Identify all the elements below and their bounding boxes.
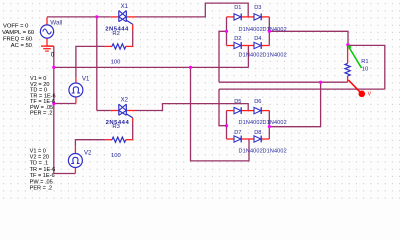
pin R2 right [126,45,134,47]
pin X2 left [111,110,119,112]
wire bridge1 right node to R1 top [269,31,348,45]
wire Wall+ to X1 (top rail y=16.9) [47,16,111,18]
svg-text:PER = .2: PER = .2 [30,111,53,117]
svg-text:D1: D1 [234,5,241,11]
svg-text:AC = 50: AC = 50 [11,43,32,49]
wire bridge1 right node vertical [268,17,270,46]
svg-text:X1: X1 [121,4,129,10]
junction at 53.8,103.5 [52,102,55,105]
pulse source V2 (VPULSE) [68,154,82,168]
label D1N4002 pair [239,120,287,126]
label D1N4002 pair [239,27,287,33]
pin Wall top [46,17,48,25]
svg-text:D1N4002: D1N4002 [263,120,287,126]
svg-text:TD = .1: TD = .1 [30,161,48,167]
wire drop to bridge2 left node [219,89,227,126]
junction at 269.3,126.6 [268,125,271,128]
svg-text:D1N4002: D1N4002 [263,27,287,33]
svg-text:D6: D6 [254,99,261,105]
pin V1 top [75,77,77,83]
junction at 226.5,125.7 [225,124,228,127]
diode D2 [234,42,241,48]
junction at 226.5,31.3 [225,30,228,33]
svg-text:D1N4002: D1N4002 [263,53,287,59]
svg-text:TF = 1E-6: TF = 1E-6 [30,173,55,179]
wire V1+ up to R2 left [76,46,105,77]
wire X1 output jog to bridge1 AC tap [135,3,248,17]
pulse source V1 (VPULSE) [69,83,83,97]
bridge row pins y=110.6 [227,110,270,112]
svg-text:D1N4002: D1N4002 [239,27,263,33]
svg-text:D1N4002: D1N4002 [239,120,263,126]
svg-text:D8: D8 [254,130,261,136]
svg-text:R3: R3 [112,124,120,130]
wire bridge2 right node to rail y=82.2 [269,82,320,127]
pin V2 top [74,147,76,154]
diode D6 [254,107,261,113]
svg-text:10: 10 [362,66,368,72]
svg-text:V: V [368,92,372,98]
wire bridge1 left node to rail y=82.2 [219,31,227,82]
resistor R3 body [112,137,126,142]
wire neutral horizontal rail y=67.4 [54,66,249,68]
triac X1 2N5444 symbol [119,11,133,25]
svg-text:D1N4002: D1N4002 [239,53,263,59]
voltage marker V on R1 bottom [348,80,365,97]
svg-text:0: 0 [51,51,55,58]
bridge row pins y=45.5 [227,45,270,47]
wire neutral riser to bridge1 D2-D4 tap [247,46,249,68]
triac X2 2N5444 symbol [119,104,133,118]
pin V2 bottom [74,167,76,173]
label D1N4002 pair [239,53,287,59]
wire neutral drop to bridge2 D7-D8 tap [191,67,250,160]
resistor R2 body [112,44,126,49]
junction at 96.8,16.9 [95,15,98,18]
pin R2 left [105,45,112,47]
svg-text:V1 = 0: V1 = 0 [30,148,46,154]
svg-text:R1: R1 [361,59,368,65]
diode D7 [234,136,241,142]
svg-text:Wall: Wall [50,19,62,26]
svg-text:V2 = 20: V2 = 20 [30,155,49,161]
pin R1 top [347,45,349,63]
svg-text:D5: D5 [234,99,241,105]
pin R1 bottom [347,76,349,82]
svg-text:D7: D7 [234,130,241,136]
pin X1 left [111,16,119,18]
svg-text:TR = 1E-6: TR = 1E-6 [30,167,56,173]
pin R3 left [105,139,112,141]
wire rail y=82.2 R1 bottom to bridge1 left net [219,81,348,83]
junction at 269.3,31.3 [268,30,271,33]
wire neutral vertical rail x=53.8 [53,46,55,173]
junction at 53.8,67.4 [52,66,55,69]
junction at 320.6,82.2 [319,81,322,84]
wire X2 left feed [97,110,111,112]
junction at 347.8,44.7 [346,43,349,46]
svg-text:D1N4002: D1N4002 [239,149,263,155]
wire bridge1 left node vertical [226,17,228,46]
AC source Wall (VSIN) [40,25,53,38]
wire V1- return [54,103,76,105]
label D1N4002 pair [239,149,287,155]
pin Wall bottom [46,38,48,46]
svg-text:100: 100 [111,153,121,159]
pin X1 right [127,16,135,18]
wire X2 gate to R3 [132,122,134,140]
ground symbol 0 [41,46,53,51]
diode D4 [254,42,261,48]
current marker on R1 [348,45,362,68]
wire X2 output jog to bridge2 AC tap [135,104,248,111]
wire X1 anode2 vertical drop to X2 branch [96,17,98,111]
wire bridge2 left node vertical [226,111,228,139]
svg-text:D3: D3 [254,5,261,11]
wire Wall- to neutral rail jog [47,45,54,47]
pin X2 gate [132,118,134,122]
svg-text:D1N4002: D1N4002 [263,149,287,155]
diode D8 [254,136,261,142]
pin R3 right [126,139,134,141]
pin V1 bottom [75,97,77,104]
diode D3 [254,14,261,20]
diode D5 [234,107,241,113]
svg-text:PW = .05: PW = .05 [30,179,53,185]
svg-text:VOFF = 0: VOFF = 0 [3,24,28,30]
wire R1 top rail to right drop [348,45,385,89]
svg-text:D4: D4 [254,36,261,42]
svg-text:R2: R2 [112,31,120,37]
svg-text:FREQ = 60: FREQ = 60 [3,37,32,43]
svg-text:V1: V1 [82,76,90,82]
wire rail y=89.1 R1 top net to bridge2 left node [219,88,385,90]
svg-text:100: 100 [111,59,121,65]
wire V2+ up to R3 left [75,140,104,147]
wire X1 gate to R2 [132,31,134,47]
diode D1 [234,14,241,20]
pin X1 gate [132,24,134,30]
resistor R1 body [345,63,350,76]
svg-text:PER = .2: PER = .2 [30,186,53,192]
wire V2- return [54,173,76,175]
bridge row pins y=139.0 [227,138,270,140]
svg-text:VAMPL = 60: VAMPL = 60 [2,30,34,36]
pin X2 right [127,110,135,112]
svg-text:D2: D2 [234,36,241,42]
svg-text:V2: V2 [84,150,92,156]
junction at 190.5,67.4 [189,66,192,69]
wire bridge2 right node vertical [268,111,270,139]
svg-text:X2: X2 [121,98,129,104]
bridge row pins y=16.9 [227,16,270,18]
